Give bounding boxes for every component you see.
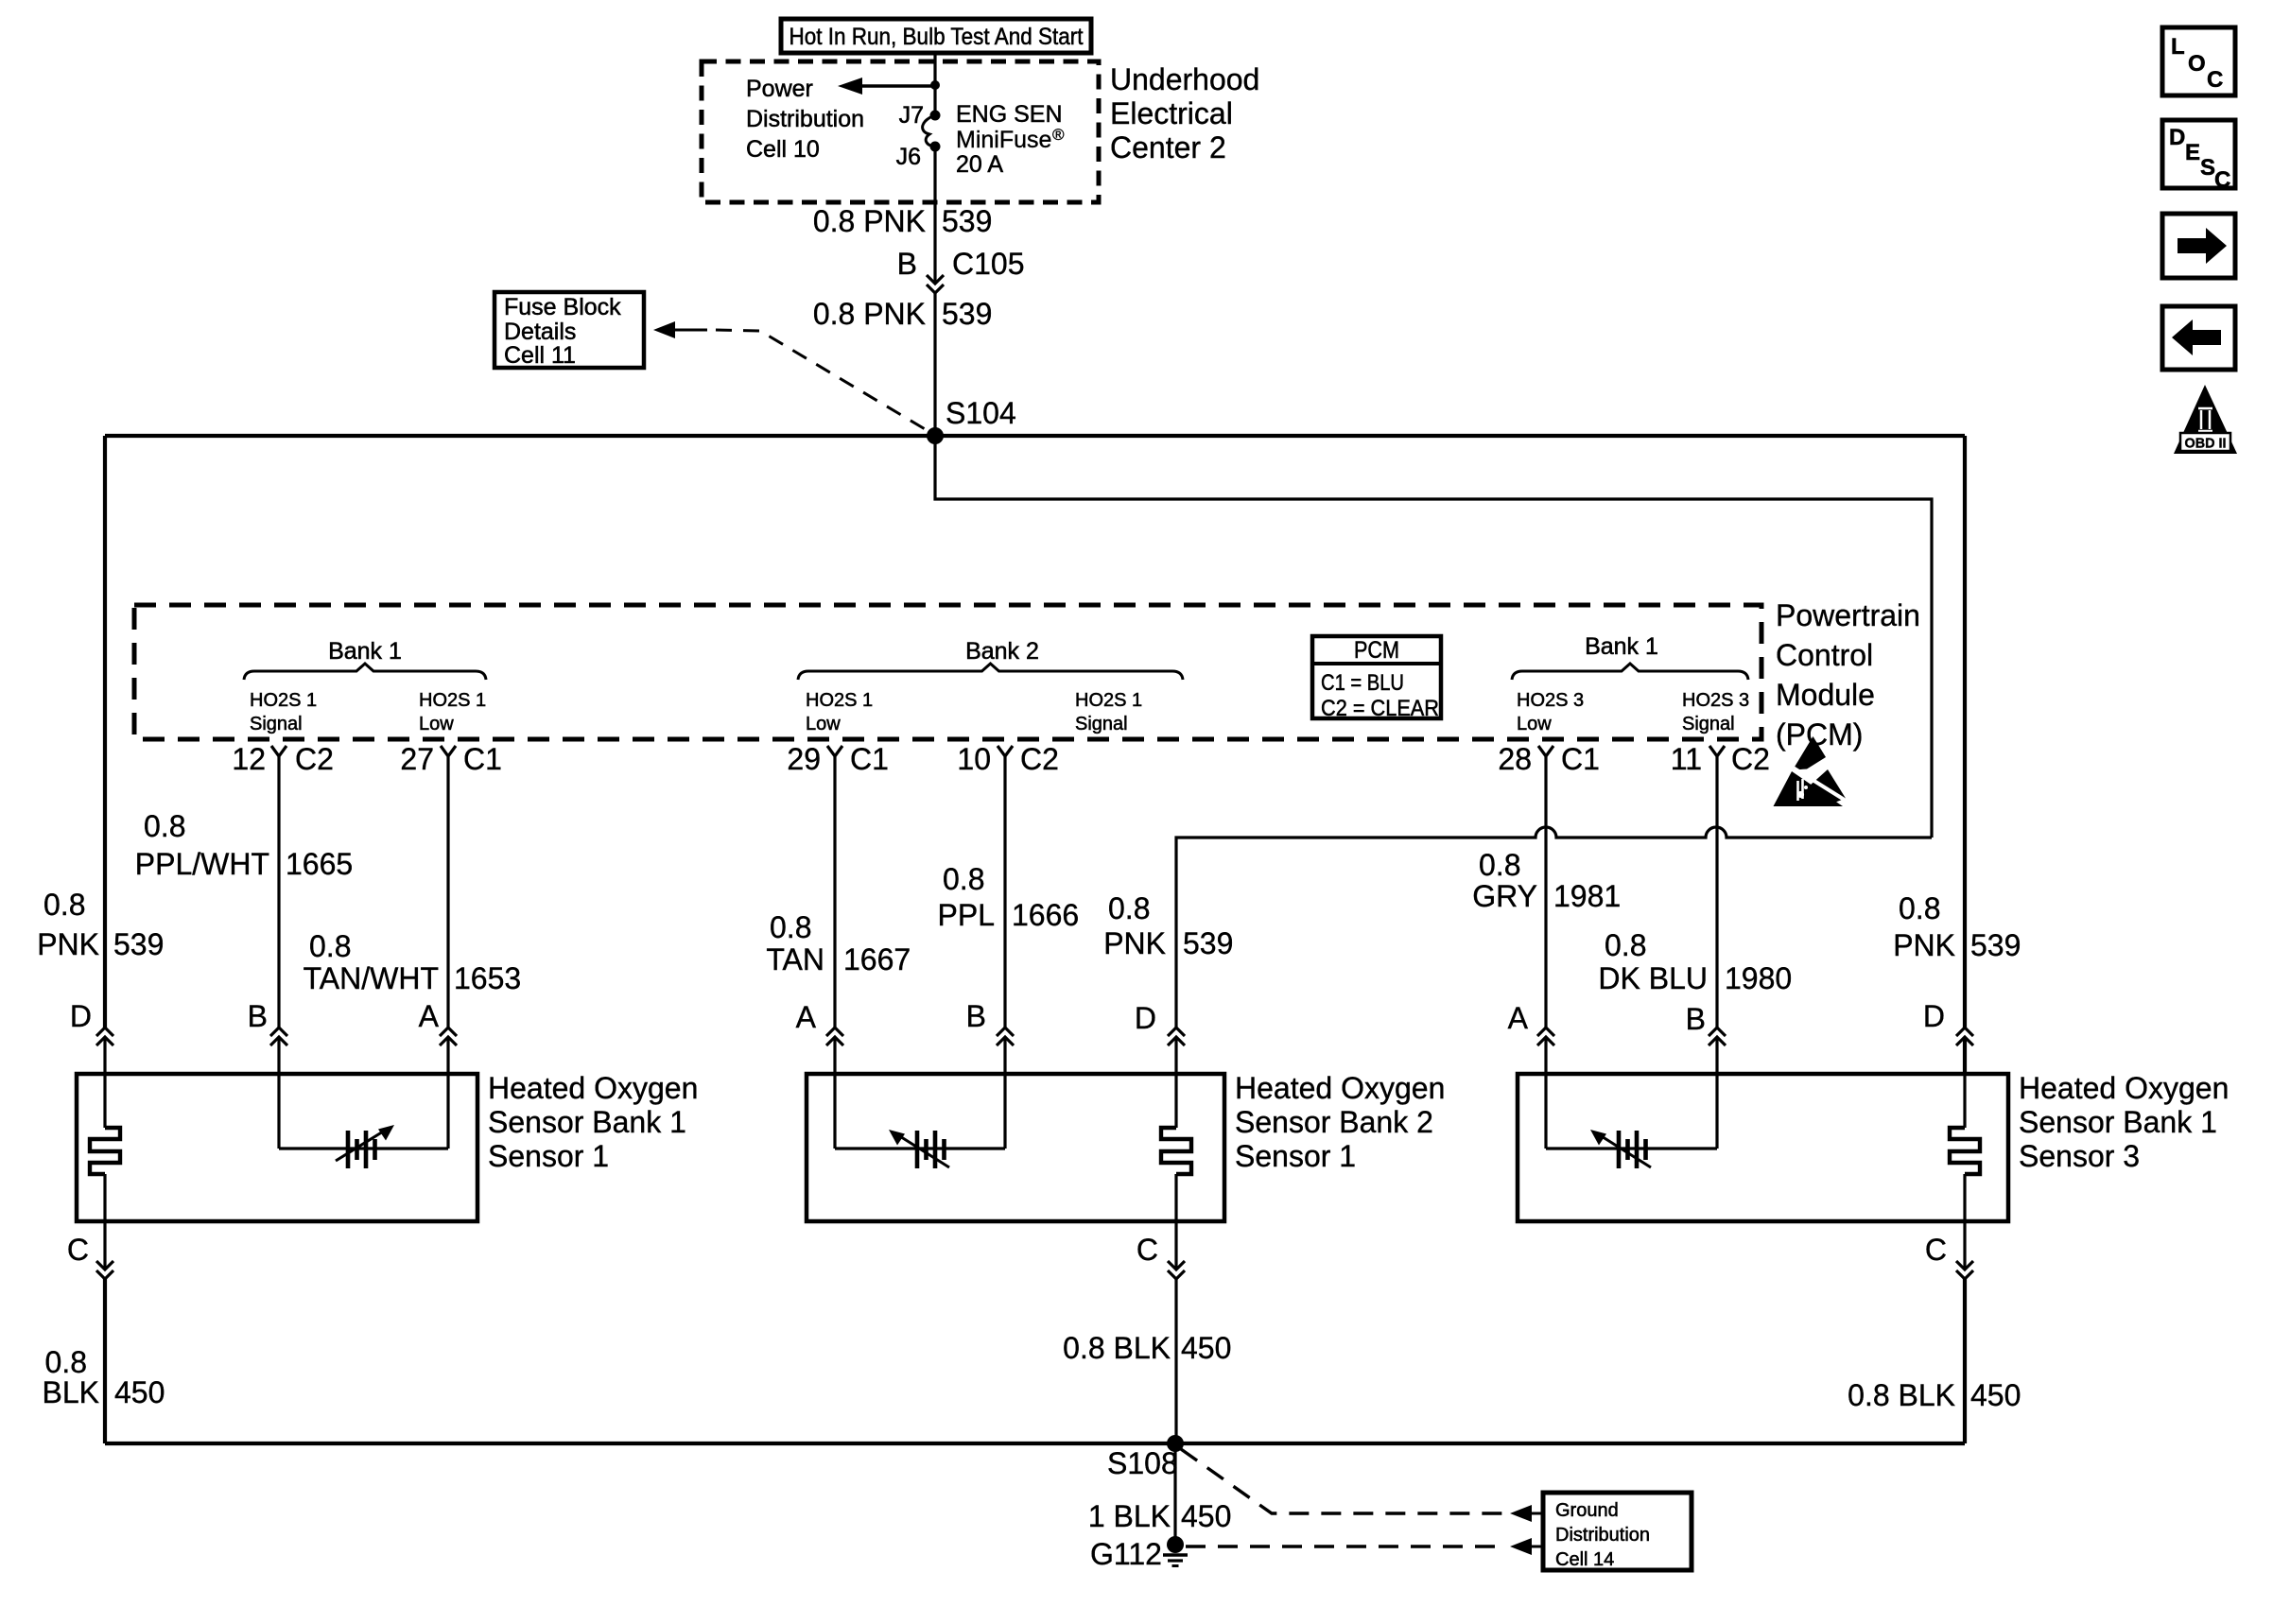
- svg-text:27: 27: [400, 742, 434, 776]
- svg-text:C2: C2: [1731, 742, 1770, 776]
- svg-text:D: D: [2169, 125, 2185, 150]
- svg-text:PNK: PNK: [37, 927, 99, 961]
- wire TAN/WHT 1653 pin 27 to sensor1 A: [446, 776, 449, 1028]
- ground G112: [1167, 1536, 1184, 1553]
- svg-text:PNK: PNK: [1893, 928, 1955, 962]
- svg-text:L: L: [2171, 34, 2185, 60]
- svg-text:C1: C1: [1561, 742, 1600, 776]
- Fuse Block Details Cell 11 box: [495, 292, 644, 368]
- svg-text:Cell 11: Cell 11: [504, 342, 576, 369]
- heater element sensor2 (on D-C wire): [1174, 1074, 1177, 1128]
- svg-text:1666: 1666: [1012, 898, 1079, 932]
- svg-text:HO2S 1: HO2S 1: [419, 690, 486, 711]
- svg-text:A: A: [1508, 1001, 1529, 1035]
- svg-text:11: 11: [1671, 742, 1702, 776]
- svg-text:Sensor 1: Sensor 1: [1235, 1139, 1356, 1173]
- Underhood Electrical Center 2 (dashed box): [702, 61, 1099, 202]
- svg-text:Center 2: Center 2: [1110, 130, 1226, 164]
- dashed reference arrow G112 to Ground Distribution: [1186, 1545, 1505, 1547]
- svg-text:C2: C2: [1020, 742, 1059, 776]
- svg-text:B: B: [966, 999, 986, 1033]
- arrow to Power Distribution: [859, 84, 935, 87]
- svg-text:0.8: 0.8: [1605, 928, 1646, 962]
- svg-text:Heated Oxygen: Heated Oxygen: [1235, 1071, 1445, 1105]
- svg-text:O: O: [2188, 51, 2206, 77]
- wire 1 BLK 450 from S108 to G112: [1173, 1443, 1176, 1545]
- wire DK BLU 1980 pin 11 to sensor3 B: [1715, 776, 1718, 1028]
- svg-text:0.8: 0.8: [43, 888, 85, 922]
- brace Bank 1 (sensor 3): [1512, 664, 1748, 680]
- wire GRY 1981 pin 28 to sensor3 A: [1544, 776, 1547, 1028]
- DESC icon box: [2162, 120, 2235, 188]
- svg-text:Low: Low: [1517, 714, 1552, 734]
- svg-text:Signal: Signal: [1682, 714, 1735, 734]
- svg-text:Sensor Bank 1: Sensor Bank 1: [488, 1105, 686, 1139]
- wire: branch S104 down and right to HO2S B2S1 pin D (with crossover bumps): [935, 436, 1932, 1028]
- svg-text:C1 = BLU: C1 = BLU: [1321, 670, 1404, 696]
- svg-text:28: 28: [1498, 742, 1532, 776]
- svg-text:C: C: [2214, 167, 2230, 193]
- sensing element sensor2 (A to B): [833, 1074, 836, 1149]
- svg-text:A: A: [419, 999, 440, 1033]
- svg-text:C105: C105: [952, 247, 1025, 281]
- connector C105 inline chevrons: [927, 275, 944, 293]
- svg-text:29: 29: [787, 742, 821, 776]
- wire C105 to splice S104: [933, 293, 936, 436]
- svg-text:Sensor Bank 1: Sensor Bank 1: [2019, 1105, 2217, 1139]
- svg-text:HO2S 1: HO2S 1: [250, 690, 317, 711]
- svg-text:450: 450: [1181, 1331, 1231, 1365]
- svg-text:Distribution: Distribution: [1555, 1525, 1650, 1546]
- svg-text:0.8: 0.8: [770, 910, 811, 944]
- header box: Hot In Run, Bulb Test And Start: [781, 19, 1091, 53]
- svg-text:PCM: PCM: [1354, 637, 1399, 664]
- wire into sensor1 D: [103, 1037, 106, 1074]
- splice S104: [927, 427, 944, 444]
- svg-text:Control: Control: [1776, 638, 1873, 672]
- wire: main feed bus from S104 left and right: [105, 434, 1965, 438]
- svg-text:539: 539: [113, 927, 164, 961]
- brace Bank 1 (sensor 1): [244, 664, 486, 680]
- svg-text:C: C: [2207, 67, 2223, 93]
- wire PPL 1666 pin 10 to sensor2 B: [1003, 776, 1006, 1028]
- svg-text:Sensor Bank 2: Sensor Bank 2: [1235, 1105, 1433, 1139]
- Ground Distribution Cell 14 box: [1543, 1493, 1692, 1570]
- svg-text:539: 539: [1183, 926, 1233, 960]
- svg-text:0.8: 0.8: [943, 862, 984, 896]
- ESD sensitivity symbol: [1793, 736, 1826, 770]
- back arrow icon box: [2162, 306, 2235, 370]
- svg-text:Signal: Signal: [1075, 714, 1128, 734]
- svg-text:PPL: PPL: [938, 898, 995, 932]
- svg-text:1 BLK: 1 BLK: [1088, 1499, 1171, 1533]
- svg-text:Module: Module: [1776, 678, 1875, 712]
- svg-text:Signal: Signal: [250, 714, 303, 734]
- wire: left bus drop (PNK 539 to HO2S B1S1 pin D): [103, 436, 107, 1028]
- svg-text:Cell 10: Cell 10: [746, 136, 820, 163]
- svg-text:Cell 14: Cell 14: [1555, 1549, 1614, 1570]
- wire sensor2 C to splice S108: [1174, 1279, 1177, 1443]
- svg-text:10: 10: [957, 742, 991, 776]
- svg-text:0.8: 0.8: [1108, 891, 1150, 925]
- svg-text:Bank 1: Bank 1: [1585, 633, 1658, 660]
- svg-text:Bank 2: Bank 2: [965, 638, 1039, 665]
- svg-text:®: ®: [1052, 126, 1065, 144]
- svg-text:S: S: [2200, 155, 2215, 181]
- svg-text:450: 450: [1181, 1499, 1231, 1533]
- svg-text:Ground: Ground: [1555, 1500, 1619, 1521]
- svg-text:1667: 1667: [843, 942, 911, 976]
- svg-text:DK BLU: DK BLU: [1598, 961, 1708, 995]
- svg-text:Underhood: Underhood: [1110, 62, 1259, 96]
- splice S108: [1167, 1435, 1184, 1452]
- svg-text:0.8: 0.8: [1899, 891, 1940, 925]
- svg-text:Electrical: Electrical: [1110, 96, 1233, 130]
- wire: right bus drop (PNK 539 to HO2S B1S3 pin D): [1963, 436, 1967, 1028]
- svg-text:TAN/WHT: TAN/WHT: [304, 961, 439, 995]
- svg-text:0.8: 0.8: [144, 809, 185, 843]
- wire sensor1 C to ground bus: [103, 1279, 107, 1443]
- svg-text:J6: J6: [896, 144, 921, 170]
- svg-text:J7: J7: [899, 102, 924, 129]
- svg-text:539: 539: [942, 297, 992, 331]
- svg-text:C1: C1: [463, 742, 502, 776]
- svg-text:Heated Oxygen: Heated Oxygen: [488, 1071, 698, 1105]
- LOC icon box: [2162, 27, 2235, 95]
- svg-text:D: D: [1135, 1001, 1156, 1035]
- svg-text:0.8 PNK: 0.8 PNK: [813, 297, 926, 331]
- svg-text:Low: Low: [806, 714, 841, 734]
- Heated Oxygen Sensor Bank 1 Sensor 1 box: [77, 1074, 477, 1221]
- svg-text:HO2S 1: HO2S 1: [1075, 690, 1142, 711]
- brace Bank 2: [798, 664, 1183, 680]
- svg-text:Heated Oxygen: Heated Oxygen: [2019, 1071, 2229, 1105]
- PCM connector legend box: [1312, 636, 1441, 718]
- heater element sensor1 (on D-C wire): [103, 1074, 106, 1128]
- svg-text:1980: 1980: [1725, 961, 1792, 995]
- svg-text:1981: 1981: [1553, 879, 1621, 913]
- svg-text:0.8: 0.8: [45, 1345, 87, 1379]
- svg-text:C1: C1: [850, 742, 889, 776]
- svg-text:C2 = CLEAR: C2 = CLEAR: [1321, 696, 1439, 721]
- svg-text:12: 12: [232, 742, 266, 776]
- Powertrain Control Module PCM (dashed box): [134, 605, 1761, 739]
- svg-text:TAN: TAN: [766, 942, 824, 976]
- svg-text:HO2S 3: HO2S 3: [1682, 690, 1749, 711]
- sensing element sensor1 (B to A): [277, 1074, 280, 1149]
- svg-text:S104: S104: [946, 396, 1016, 430]
- svg-text:HO2S 3: HO2S 3: [1517, 690, 1584, 711]
- sensing element sensor3 (A to B): [1544, 1074, 1547, 1149]
- svg-text:PNK: PNK: [1103, 926, 1166, 960]
- OBD II symbol: [2174, 385, 2237, 454]
- svg-text:539: 539: [1970, 928, 2021, 962]
- svg-text:D: D: [70, 999, 92, 1033]
- wire: ground bus BLK 450: [105, 1442, 1965, 1445]
- svg-text:C: C: [67, 1233, 89, 1267]
- svg-text:539: 539: [942, 204, 992, 238]
- svg-text:Distribution: Distribution: [746, 106, 864, 132]
- svg-text:Details: Details: [504, 319, 576, 345]
- svg-text:C: C: [1925, 1233, 1947, 1267]
- Heated Oxygen Sensor Bank 2 Sensor 1 box: [807, 1074, 1224, 1221]
- dashed reference arrow from S104 to Fuse Block Details: [653, 321, 675, 338]
- svg-text:G112: G112: [1090, 1537, 1162, 1571]
- forward arrow icon box: [2162, 214, 2235, 278]
- svg-text:B: B: [1686, 1002, 1706, 1036]
- fuse F: ENG SEN MiniFuse 20 A between J7 and J6: [930, 111, 941, 121]
- svg-text:450: 450: [114, 1375, 165, 1409]
- Heated Oxygen Sensor Bank 1 Sensor 3 box: [1518, 1074, 2008, 1221]
- svg-text:A: A: [796, 1000, 817, 1034]
- wire TAN 1667 pin 29 to sensor2 A: [833, 776, 836, 1028]
- svg-text:B: B: [248, 999, 268, 1033]
- svg-text:E: E: [2185, 140, 2200, 165]
- svg-text:Low: Low: [419, 714, 454, 734]
- svg-text:0.8: 0.8: [309, 929, 351, 963]
- svg-text:GRY: GRY: [1472, 879, 1537, 913]
- svg-text:0.8: 0.8: [1479, 848, 1520, 882]
- svg-text:S108: S108: [1107, 1446, 1178, 1480]
- svg-text:450: 450: [1970, 1378, 2021, 1412]
- svg-text:Sensor 3: Sensor 3: [2019, 1139, 2140, 1173]
- svg-text:Bank 1: Bank 1: [328, 638, 402, 665]
- svg-text:Fuse Block: Fuse Block: [504, 294, 621, 320]
- svg-text:Power: Power: [746, 76, 813, 102]
- svg-text:C2: C2: [295, 742, 334, 776]
- heater element sensor3 (on D-C wire): [1963, 1074, 1966, 1128]
- wire J6 to connector C105: [933, 147, 936, 284]
- svg-text:OBD II: OBD II: [2185, 436, 2227, 452]
- svg-text:0.8 PNK: 0.8 PNK: [813, 204, 926, 238]
- svg-text:ENG SEN: ENG SEN: [956, 101, 1063, 128]
- svg-text:HO2S 1: HO2S 1: [806, 690, 873, 711]
- svg-text:Sensor 1: Sensor 1: [488, 1139, 609, 1173]
- wire sensor3 C to ground bus: [1963, 1279, 1967, 1443]
- svg-text:1665: 1665: [286, 847, 353, 881]
- svg-text:D: D: [1923, 999, 1945, 1033]
- svg-text:Hot In Run, Bulb Test And Star: Hot In Run, Bulb Test And Start: [789, 24, 1084, 50]
- svg-text:20 A: 20 A: [956, 151, 1003, 178]
- svg-text:0.8 BLK: 0.8 BLK: [1848, 1378, 1955, 1412]
- svg-text:MiniFuse: MiniFuse: [956, 127, 1051, 153]
- dashed reference arrow S108 to Ground Distribution: [1181, 1449, 1505, 1513]
- wire PPL/WHT 1665 pin 12 to sensor1 B: [277, 776, 280, 1028]
- svg-text:0.8 BLK: 0.8 BLK: [1063, 1331, 1171, 1365]
- svg-text:B: B: [897, 247, 917, 281]
- svg-text:Powertrain: Powertrain: [1776, 598, 1920, 632]
- svg-text:PPL/WHT: PPL/WHT: [135, 847, 269, 881]
- svg-text:(PCM): (PCM): [1776, 717, 1863, 752]
- svg-text:C: C: [1136, 1233, 1158, 1267]
- wire from header box to Underhood Electrical Center 2: [933, 53, 936, 115]
- svg-text:BLK: BLK: [43, 1375, 99, 1409]
- svg-text:1653: 1653: [454, 961, 521, 995]
- junction dot on feed wire: [930, 80, 940, 90]
